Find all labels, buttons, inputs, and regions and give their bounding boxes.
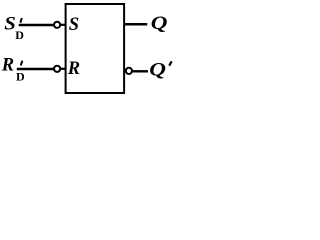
label S'D : prime [20, 18, 21, 23]
inverter bubble S input [54, 22, 60, 28]
inverter bubble R input [54, 66, 60, 72]
wire Q' output [133, 70, 148, 72]
label R'D : R [1, 56, 14, 76]
label Q output [151, 12, 168, 33]
latch body U1 [66, 4, 125, 93]
svg-text:Q: Q [151, 12, 168, 33]
label R'D : prime [21, 61, 23, 66]
svg-text:D: D [15, 28, 24, 42]
label S'D : S [4, 13, 16, 34]
wire R bubble to box [61, 68, 66, 70]
svg-text:R: R [67, 59, 80, 79]
svg-text:Q: Q [149, 59, 166, 80]
wire S bubble to box [61, 24, 66, 26]
wire R input [17, 68, 54, 71]
wire S input [19, 24, 54, 27]
label Q' output : Q [149, 59, 166, 80]
svg-text:S: S [69, 15, 79, 35]
inverter bubble Q' output [126, 68, 132, 74]
wire Q output [125, 23, 147, 26]
svg-text:S: S [4, 13, 16, 34]
svg-text:R: R [1, 56, 14, 76]
svg-text:D: D [16, 70, 25, 84]
label Q' output : prime [169, 61, 171, 65]
